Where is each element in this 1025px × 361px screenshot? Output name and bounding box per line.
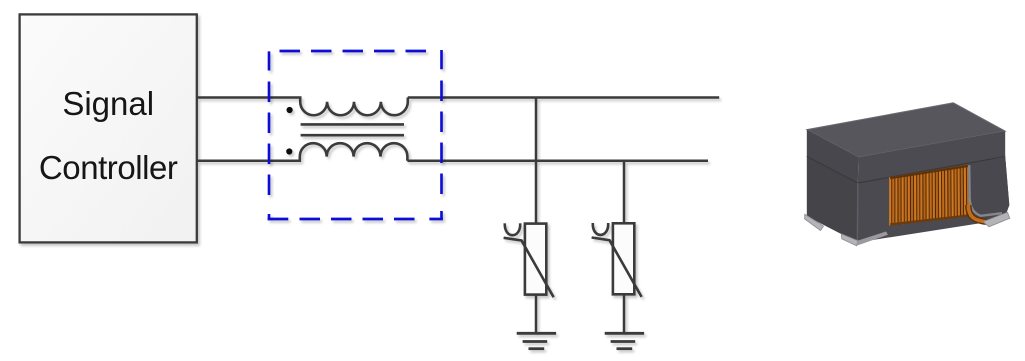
body left face [807,156,858,242]
terminal foot A [805,214,824,230]
bottom bevel sliver [857,232,888,246]
wire top-left (box to transformer) [197,96,302,99]
lid front-left face [807,130,859,183]
winding bottom shade [890,216,968,225]
ground GND1 [517,333,556,348]
varistor RV1 body [525,224,546,295]
varistor RV2 U mark [593,223,608,235]
copper tail outline [968,205,987,222]
ground GND2 [605,333,644,348]
svg-text:Signal: Signal [62,85,154,122]
lid bottom separation line [807,156,1005,183]
varistor RV1 diagonal stroke [504,238,554,297]
svg-text:Controller: Controller [39,149,178,186]
common-mode choke boundary (blue dashed box) [268,50,443,219]
top edge dashes [280,50,427,53]
lid top face [807,103,1005,157]
transformer T1 secondary winding (bottom) [300,143,408,161]
varistor RV2 diagonal stroke [592,238,642,297]
wire varistor RV1 vertical [535,98,538,225]
3D inductor component photo [805,103,1010,246]
front vertical edge highlight [856,183,858,242]
wire bottom-right (transformer to right) [407,160,708,163]
bottom edge dashes [268,218,443,221]
wire RV1 to ground [535,295,538,334]
wire varistor RV2 vertical [623,161,626,224]
wire top-right (transformer to right) [408,96,719,99]
varistor RV1 U mark [505,223,520,235]
end cap dark region [968,157,1009,223]
wire RV2 to ground [623,294,626,333]
winding top shade [890,166,968,178]
signal controller box U1 [20,14,197,242]
transformer T1 primary winding (top) [300,98,408,116]
winding copper stripes [890,165,968,226]
transformer T1 phase dot (primary) [287,107,293,113]
lid front-right face [858,131,1005,183]
left edge dashes [268,51,271,219]
transformer T1 core line 2 [301,134,404,137]
right edge dashes [440,50,443,219]
wire bottom-left (box to transformer) [197,160,301,163]
winding base [890,165,968,226]
end cap chamfer highlight [969,165,1002,216]
body front-right face [857,157,1009,243]
copper tail wire [968,205,987,222]
varistor RV2 body [613,223,634,294]
terminal foot B [841,234,857,246]
transformer T1 core line 1 [301,123,404,126]
terminal foot C [983,212,1010,227]
transformer T1 phase dot (secondary) [286,148,292,154]
